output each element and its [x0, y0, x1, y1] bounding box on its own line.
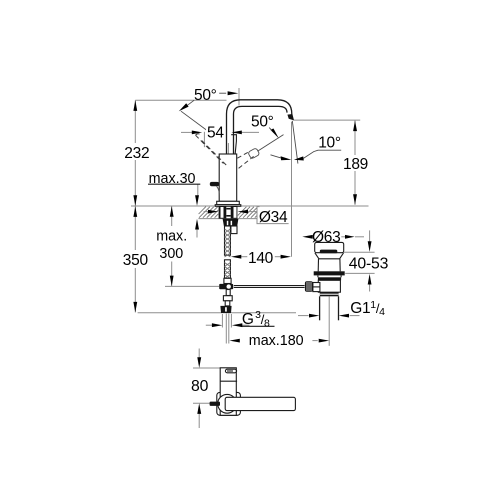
- spout outlet tip: [287, 114, 294, 120]
- extension lines 80: [193, 368, 220, 403]
- dimension line max300 vertical: [171, 206, 173, 286]
- arrow 232 bottom: [133, 195, 137, 206]
- lever blade closed position: [235, 141, 236, 155]
- arrow 80 top: [197, 357, 201, 368]
- arrow G38 right: [232, 323, 242, 327]
- arrow 350 top: [133, 206, 137, 217]
- shank right slot: [234, 207, 237, 218]
- dimension line 40-53 vertical: [369, 230, 371, 291]
- G3/8 neck: [225, 301, 230, 306]
- G3/8 collar: [223, 296, 232, 301]
- actuator shaft: [313, 283, 320, 292]
- waste cone left side: [315, 253, 319, 259]
- svg-text:189: 189: [343, 156, 368, 173]
- dimension line Ø63 tails: [341, 236, 364, 238]
- arrow 350 bottom: [133, 302, 137, 313]
- waste tailpipe: [320, 296, 339, 320]
- bottom view pivot circle: [218, 394, 237, 413]
- extension line 350 bottom: [138, 312, 296, 314]
- waste washer lower: [318, 277, 341, 280]
- phantom lever up-left back edge: [196, 135, 224, 163]
- svg-text:Ø63: Ø63: [312, 229, 340, 246]
- deck top line: [131, 205, 369, 207]
- text 189: [342, 156, 368, 173]
- arrow max180 left: [229, 339, 239, 343]
- waste plug disk: [315, 242, 344, 252]
- arrow Ø63 left: [302, 235, 312, 239]
- svg-text:40-53: 40-53: [349, 255, 389, 272]
- extension lines G3/8 nipple: [222, 314, 231, 328]
- waste cone joint line: [319, 258, 340, 260]
- leader Ø34 tails: [204, 211, 257, 213]
- arrow Ø34 right: [238, 210, 248, 214]
- pop-up rod coupler: [219, 284, 233, 289]
- bottom view slot inner: [227, 370, 233, 372]
- faucet body centreline: [227, 143, 229, 205]
- body of mixer: [219, 154, 237, 201]
- bottom view base plate: [217, 392, 241, 415]
- coupler ball joint: [226, 284, 231, 289]
- water stream angled line: [292, 121, 298, 164]
- dimension line max180 tail: [312, 340, 317, 342]
- bottom view set screw: [210, 402, 220, 406]
- dimension line 54 horizontal: [181, 131, 259, 133]
- phantom lever open-right lower edge: [239, 156, 254, 168]
- arrow Ø63 right: [345, 235, 355, 239]
- svg-text:max.: max.: [156, 229, 187, 245]
- deck bottom line: [198, 218, 257, 220]
- bottom view spout slot: [225, 369, 236, 373]
- leader 50deg outer left arrowhead: [179, 103, 189, 111]
- arrow G38 left: [212, 323, 222, 327]
- deck hatching right of shank: [238, 207, 257, 218]
- flexible hose lower section: [225, 260, 231, 279]
- waste gap sides: [318, 275, 341, 277]
- svg-text:max.180: max.180: [249, 333, 304, 349]
- dimension line 80 vertical: [198, 349, 200, 429]
- svg-text:10°: 10°: [318, 135, 341, 152]
- hose end fitting: [224, 278, 231, 283]
- leader 50deg outer right dash: [219, 92, 226, 94]
- phantom lever open-right end cap: [248, 148, 260, 159]
- arrow 189 bottom: [353, 194, 357, 205]
- spout tube inner edge: [234, 106, 288, 154]
- threaded shank through deck: [219, 206, 238, 218]
- dimension line G1 1/4 tails: [298, 315, 360, 317]
- phantom lever open-right upper edge: [237, 151, 250, 158]
- arrow 54 left: [192, 131, 202, 135]
- shank centre bands: [226, 208, 230, 210]
- waste lift knob: [320, 250, 338, 254]
- mounting nut: [223, 219, 239, 226]
- svg-text:300: 300: [159, 246, 183, 262]
- waste actuator knurled knob: [305, 281, 313, 292]
- text 54: [206, 125, 226, 142]
- rod lower stub: [226, 290, 230, 296]
- extension line spout bend tangent vertical: [238, 88, 240, 106]
- dimension line G3/8 tails: [206, 324, 250, 326]
- text 232: [123, 145, 149, 162]
- arrow 189 top: [353, 121, 357, 132]
- pop-up rod knob on body: [210, 182, 219, 186]
- extension line top of spout (232 ref): [135, 99, 226, 101]
- flexible hose upper section: [225, 226, 231, 257]
- phantom lever up-left end cap: [196, 134, 201, 135]
- lever notch on tube: [231, 135, 236, 141]
- dimension line max30 verticals: [196, 184, 199, 237]
- mounting nut slits: [227, 221, 229, 225]
- arrow 40-53 top: [368, 241, 372, 252]
- G3/8 underline: [241, 325, 275, 327]
- arrow Ø34 left: [208, 210, 218, 214]
- spout tube outer edge: [227, 100, 292, 155]
- arrow 54 right: [231, 131, 241, 135]
- horizontal transfer rod: [234, 286, 305, 288]
- arrow max300 top: [170, 206, 174, 217]
- knurl ridges: [307, 282, 311, 291]
- arrow max30 top: [195, 195, 199, 206]
- leader 50deg inner arrowhead: [270, 129, 279, 139]
- base cap upper: [217, 201, 240, 204]
- pop-up rod curve into body: [217, 186, 220, 197]
- text 40-53: [348, 255, 389, 272]
- phantom lever axis up-left: [181, 111, 211, 133]
- svg-text:max.30: max.30: [149, 171, 196, 187]
- extension lines 40-53: [341, 252, 375, 273]
- arrow 140 left: [231, 255, 241, 259]
- Ø34 label box: [257, 207, 289, 224]
- arrow 40-53 bottom: [368, 274, 372, 285]
- dimension line 140 tails: [241, 256, 281, 258]
- arrow max30 bottom: [195, 219, 199, 230]
- bottom view body: [220, 368, 236, 416]
- svg-text:50°: 50°: [194, 87, 217, 104]
- arrow 140 right: [281, 255, 291, 259]
- waste upper body sides: [318, 259, 340, 272]
- max.30 underline: [148, 183, 200, 185]
- svg-text:Ø34: Ø34: [259, 209, 288, 226]
- svg-text:54: 54: [207, 125, 224, 142]
- arrow max300 bottom: [170, 276, 174, 287]
- deck hatching left of shank: [199, 207, 219, 218]
- waste centre line: [328, 297, 330, 346]
- text 350: [122, 252, 149, 269]
- waste cone right side: [340, 253, 344, 259]
- leader 50deg outer stem: [187, 100, 194, 105]
- svg-text:232: 232: [124, 145, 149, 162]
- actuator shaft line: [313, 286, 320, 288]
- lever axis line open position: [258, 135, 284, 152]
- joint band stripe: [320, 294, 339, 295]
- dimension line 232/350 vertical: [134, 100, 136, 312]
- hose guide cylinder: [231, 226, 237, 234]
- leader 10deg line: [303, 150, 341, 158]
- leader 10deg arrowhead: [294, 156, 304, 160]
- leader 50deg outer right arrowhead: [228, 91, 239, 95]
- shank centre column: [226, 207, 230, 218]
- G3/8 nut slit: [225, 307, 227, 311]
- phantom lever up-left front edge: [202, 141, 228, 167]
- svg-text:140: 140: [248, 250, 274, 267]
- svg-text:50°: 50°: [251, 113, 274, 130]
- extension line 189 top: [294, 119, 361, 121]
- shank left slot: [221, 207, 224, 218]
- arrow G1 right: [339, 314, 349, 318]
- arc 50 swivel left arrowhead: [271, 155, 281, 158]
- arrow 232 top: [133, 100, 137, 111]
- arrow G1 left: [309, 314, 319, 318]
- extension line lever face (54): [203, 132, 205, 147]
- svg-text:80: 80: [191, 378, 209, 395]
- G3/8 nut: [220, 306, 231, 313]
- extension lines faucet CL to max180: [226, 314, 229, 344]
- dimension line 189 vertical: [354, 121, 356, 205]
- arrow 80 bottom: [197, 403, 201, 414]
- waste washer upper: [314, 271, 345, 275]
- bottom view body joint line: [220, 380, 237, 382]
- arrow max180 right: [319, 339, 329, 343]
- waste lower body: [318, 280, 340, 292]
- waste joint striped band: [320, 292, 339, 296]
- base plate lower: [215, 205, 241, 207]
- stream vertical extension line: [291, 122, 293, 257]
- leader 50deg inner stem: [269, 128, 272, 131]
- bottom view lever arm: [225, 397, 295, 410]
- svg-text:350: 350: [123, 252, 149, 269]
- extension line hose end level (max300 bottom): [165, 285, 219, 287]
